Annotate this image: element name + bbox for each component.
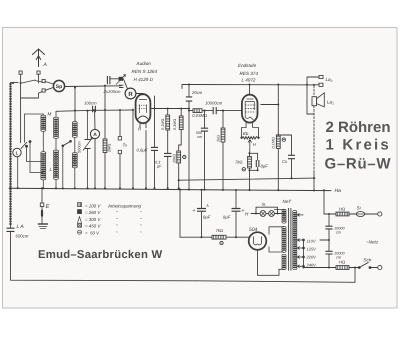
wire Sp to trimmer	[65, 85, 121, 88]
antenna switch	[11, 80, 36, 83]
resistor 7k filter	[212, 235, 226, 239]
svg-text:SL: SL	[262, 202, 267, 207]
wire x133 column	[132, 109, 134, 188]
antenna coil beads	[9, 83, 11, 225]
rectifier tube 504	[249, 232, 267, 250]
wire coil L2 top link	[55, 111, 57, 117]
svg-text:= 450 V: = 450 V	[85, 224, 101, 229]
svg-text:0,03MΩ: 0,03MΩ	[192, 113, 207, 118]
coil L3 lower	[72, 153, 77, 168]
capacitor 500cm	[201, 128, 208, 131]
svg-text:7kΩ: 7kΩ	[216, 228, 224, 233]
wire x146 column	[145, 131, 147, 189]
wire tuning branch	[87, 111, 89, 189]
coil L2 upper	[54, 117, 59, 138]
capacitor LA 600cm	[7, 228, 15, 231]
marker 7k cathode	[242, 168, 245, 171]
coil M lower	[41, 152, 46, 180]
tube V2 internals	[245, 99, 254, 118]
wire tube2 top cap	[249, 85, 251, 96]
svg-text:7kΩ: 7kΩ	[235, 160, 243, 165]
wire coil L2 mid/bottom	[55, 138, 57, 188]
wire mains caps column	[320, 214, 329, 268]
svg-text:HΩ: HΩ	[339, 207, 345, 212]
svg-text:2 Röhren: 2 Röhren	[326, 119, 391, 136]
legend Arbeitsspannung	[78, 203, 143, 236]
svg-text:A: A	[43, 62, 48, 68]
wire cathode cluster bottom link	[250, 169, 258, 171]
svg-text:HΩ: HΩ	[339, 260, 345, 265]
bottom return wire	[196, 268, 355, 283]
wire trimmer to R to tube grid	[123, 79, 143, 95]
svg-text:10000cm: 10000cm	[205, 101, 223, 106]
resistor 0.03M	[193, 109, 202, 113]
svg-text:0,6μF: 0,6μF	[137, 148, 148, 153]
svg-text:NeT: NeT	[283, 199, 293, 204]
svg-text:8μF: 8μF	[261, 164, 269, 169]
transformer winding heater	[282, 209, 286, 223]
wire HO2 row	[304, 265, 378, 268]
wire second return line y180	[179, 178, 315, 180]
secondary taps	[297, 214, 304, 268]
wire rectifier bottom	[258, 250, 285, 275]
wire coil M top link	[25, 114, 44, 143]
wire coil tap 1	[30, 142, 43, 173]
wire coil L3 mid/bottom	[74, 137, 76, 188]
resistor 7k cathode	[248, 157, 252, 169]
resistor 0.1M	[166, 115, 170, 130]
wire L to bus	[17, 157, 19, 188]
capacitor Cs	[288, 155, 295, 158]
svg-text:Sch: Sch	[364, 258, 372, 263]
wire HT column x189	[182, 85, 189, 190]
svg-text:600cm: 600cm	[16, 234, 29, 239]
svg-text:Emud–Saarbrücken W: Emud–Saarbrücken W	[38, 249, 162, 261]
wire heater winding link	[274, 210, 284, 214]
meter A circle	[90, 129, 99, 138]
svg-text:+: +	[193, 208, 196, 214]
wire screen column x154.5	[154, 96, 156, 188]
svg-text:M: M	[48, 112, 52, 117]
svg-text:H 4129 D: H 4129 D	[134, 77, 154, 82]
svg-text:= 260 V: = 260 V	[85, 210, 101, 215]
speaker	[312, 97, 317, 106]
wave switch arm	[63, 141, 71, 146]
svg-text:240V: 240V	[306, 263, 317, 268]
coil M upper	[41, 115, 46, 131]
terminal Si	[378, 212, 382, 216]
wire speaker return dashed	[313, 86, 315, 172]
barretter Eb	[242, 137, 259, 139]
wire tube2 anode	[261, 104, 279, 106]
transformer primary winding	[293, 211, 297, 270]
svg-text:L 4072: L 4072	[242, 78, 256, 83]
wire lamp row	[251, 213, 284, 215]
wire electrolytic stubs	[202, 190, 237, 237]
svg-text:Endstufe: Endstufe	[238, 63, 257, 68]
tube V2 envelope	[242, 95, 258, 123]
wire rectifier winding links	[269, 227, 284, 252]
circle Sp	[53, 80, 64, 91]
svg-text:~Netz: ~Netz	[366, 240, 379, 245]
svg-text:cm: cm	[336, 230, 341, 234]
marker 20k	[183, 155, 186, 158]
wire rectifier left pin	[247, 236, 249, 238]
transformer core	[289, 208, 291, 271]
svg-text:Cs: Cs	[282, 159, 288, 164]
wire E ground	[41, 189, 43, 224]
earth element	[38, 223, 48, 225]
svg-text:Arbeitsspannung: Arbeitsspannung	[107, 204, 142, 209]
svg-text:To: To	[123, 143, 128, 148]
wire vertical x75	[74, 86, 76, 122]
jack To	[118, 137, 121, 140]
svg-text:20cm: 20cm	[191, 90, 203, 95]
wire speaker return solid	[313, 171, 315, 191]
transformer winding rectifier	[282, 226, 286, 252]
wire coil M mid/bottom	[42, 131, 44, 188]
terminal E	[40, 203, 44, 207]
wire LA cap lead	[11, 225, 197, 281]
svg-text:A: A	[93, 132, 97, 138]
fuse link E	[41, 211, 43, 216]
wire switch down to band switch	[20, 83, 22, 143]
wire 2k grid resistor column	[222, 111, 224, 190]
variable capacitor 500cm	[85, 140, 91, 149]
resistor HO2	[336, 266, 349, 270]
svg-text:0,3MΩ: 0,3MΩ	[173, 119, 177, 130]
fuse Si	[356, 212, 365, 217]
wire tube1 cathode pins	[140, 123, 146, 128]
wire lamp bypass loop	[256, 207, 278, 213]
svg-text:G–Rü–W: G–Rü–W	[325, 155, 392, 172]
wire 0.1M column	[167, 109, 169, 189]
wire To column x120	[119, 110, 121, 188]
pilot lamp 2	[269, 211, 275, 217]
marker 7k filter	[220, 241, 223, 244]
svg-text:2kΩ: 2kΩ	[217, 135, 221, 143]
wire Ha drop	[323, 190, 325, 214]
wire tap bus	[303, 241, 305, 266]
svg-text:500cm: 500cm	[77, 141, 82, 153]
capacitor 10000cm upper	[325, 226, 332, 229]
wire 0.1M output column	[277, 85, 279, 191]
svg-text:REN S 1264: REN S 1264	[132, 69, 158, 74]
wire anode to 0.03M	[189, 110, 242, 112]
svg-text:E: E	[46, 204, 50, 210]
coil L circle	[13, 148, 21, 156]
svg-text:8μF: 8μF	[203, 215, 211, 220]
resistor 20k	[177, 151, 181, 163]
svg-text:125V: 125V	[307, 246, 317, 251]
svg-text:2MΩ: 2MΩ	[107, 144, 112, 153]
tube V1 internals	[139, 100, 147, 114]
terminal A1	[19, 71, 22, 74]
resistor 0.1M output	[276, 135, 280, 149]
chassis bus	[9, 188, 331, 190]
wire cathode cap links	[250, 153, 258, 170]
capacitor 10000cm	[213, 107, 216, 114]
svg-text:0,1MΩ: 0,1MΩ	[272, 137, 276, 148]
terminal Sp2	[42, 89, 45, 92]
wire Cs cap branch	[278, 135, 291, 178]
wire ps left drop	[179, 190, 181, 238]
capacitor 10000cm lower	[325, 251, 332, 254]
grid capacitor 2x100cm	[107, 76, 110, 84]
svg-text:λ: λ	[206, 203, 209, 208]
wire antenna to terminals	[21, 75, 39, 84]
switch Sch	[359, 262, 368, 267]
svg-text:220V: 220V	[306, 254, 317, 259]
svg-text:504: 504	[249, 227, 258, 233]
capacitor 0.3uF	[164, 153, 171, 156]
capacitor 100cm	[93, 106, 96, 112]
wire switch to Sp terminals	[35, 81, 53, 91]
svg-text:L: L	[16, 151, 19, 156]
wire Sp lower loop	[21, 92, 42, 99]
svg-text:L A: L A	[17, 224, 25, 230]
svg-text:100cm: 100cm	[84, 100, 97, 105]
svg-text:110V: 110V	[307, 238, 316, 243]
capacitor cathode	[256, 160, 259, 167]
wire 500cm column	[204, 111, 206, 190]
antenna symbol	[33, 49, 45, 67]
capacitor 0.6uF	[151, 147, 158, 150]
resistor HO1	[336, 212, 349, 216]
svg-text:20kΩ: 20kΩ	[172, 154, 176, 164]
circle R	[125, 88, 136, 99]
wire detector line y110	[56, 110, 133, 111]
svg-text:Eb: Eb	[243, 131, 249, 136]
resistor 0.3M	[179, 116, 183, 130]
electrolytic 8uF right	[232, 209, 241, 212]
wire coil tap 2	[27, 146, 44, 161]
wire tube2 cathode cluster	[249, 152, 251, 190]
svg-text:R: R	[128, 91, 133, 98]
coil L3 upper	[72, 122, 77, 138]
tube V1 envelope	[136, 94, 151, 123]
terminal A2	[37, 71, 40, 74]
wire anode line y108.5	[151, 108, 189, 110]
terminal La2 top	[319, 75, 323, 78]
terminal La2 bottom	[319, 83, 323, 86]
wire 0.3M / 20k column	[179, 109, 182, 190]
svg-text:8μF: 8μF	[223, 215, 231, 220]
svg-text:0,1MΩ: 0,1MΩ	[161, 119, 165, 130]
wire grid top link	[110, 78, 118, 80]
svg-text:Ha: Ha	[335, 188, 342, 194]
wire ps filter line	[180, 236, 248, 238]
marker 0.1M output	[282, 138, 285, 141]
tube V2 base leads	[242, 123, 259, 138]
capacitor 20cm	[186, 97, 192, 101]
band switch arm	[21, 142, 27, 149]
resistor 2k	[221, 128, 225, 142]
wire La bracket	[307, 77, 319, 114]
svg-text:Sp: Sp	[56, 84, 62, 90]
electrolytic 8uF left	[197, 209, 206, 212]
svg-text:= 50 V: = 50 V	[85, 230, 100, 235]
pilot lamp 1	[260, 211, 266, 217]
trimmer plates	[119, 77, 123, 81]
terminal Sp1	[42, 79, 45, 82]
wire wave switch to bus	[62, 146, 64, 189]
wire HO1 row	[324, 213, 378, 215]
svg-text:Audion: Audion	[136, 61, 152, 66]
svg-text:= 100 V: = 100 V	[85, 204, 101, 209]
wire grid leak column x103.7	[104, 86, 106, 189]
svg-text:RES 374: RES 374	[240, 71, 259, 76]
svg-text:2x100cm: 2x100cm	[103, 89, 122, 94]
svg-text:1 Kreis: 1 Kreis	[326, 137, 391, 154]
transformer winding HT	[282, 254, 286, 269]
resistor 2M	[103, 139, 107, 153]
terminal Sch	[378, 265, 382, 269]
wire HT rail y84.5	[189, 84, 314, 86]
svg-text:= 300 V: = 300 V	[85, 217, 101, 222]
wire A-meter column x94	[94, 110, 96, 188]
svg-text:cm: cm	[197, 135, 202, 139]
center tap arrow	[248, 140, 252, 152]
coil L2 lower	[54, 150, 59, 179]
